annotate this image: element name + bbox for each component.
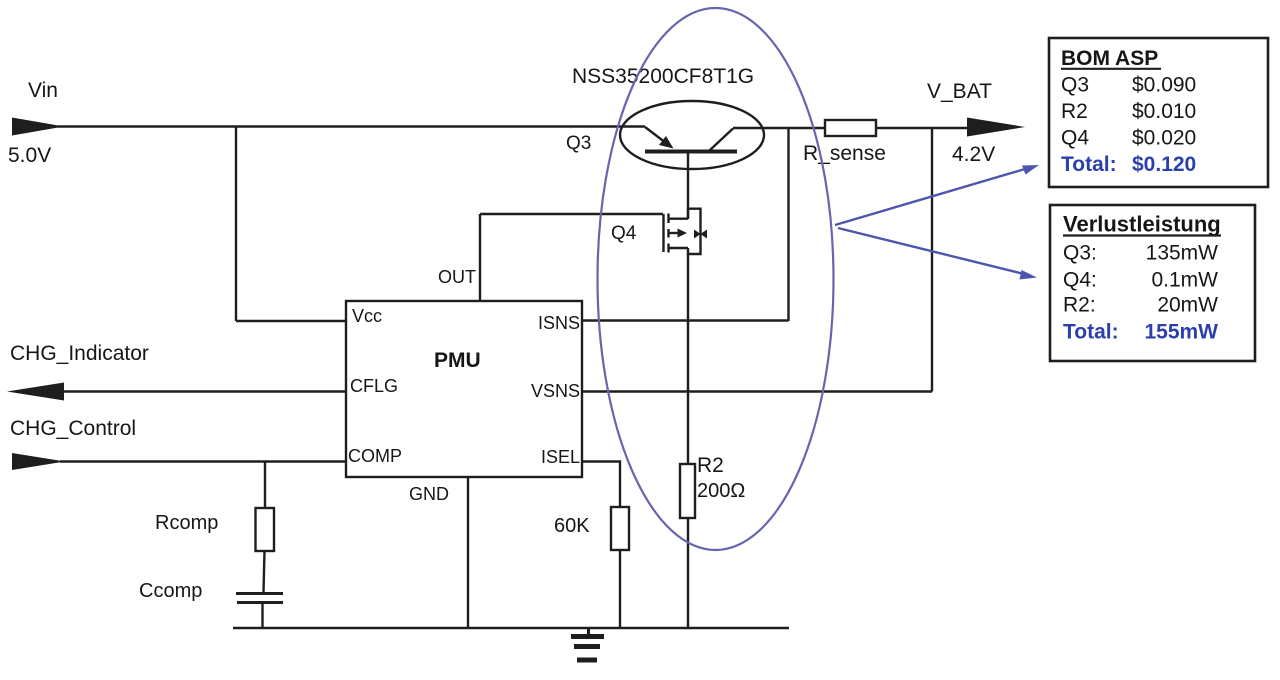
resistor Rcomp <box>256 508 275 551</box>
svg-text:ISEL: ISEL <box>541 447 580 467</box>
resistor R_sense <box>825 120 876 136</box>
svg-text:4.2V: 4.2V <box>952 143 995 166</box>
wire Rcomp branch <box>264 462 266 509</box>
svg-text:Verlustleistung: Verlustleistung <box>1063 212 1221 237</box>
svg-text:5.0V: 5.0V <box>8 144 51 167</box>
svg-text:200Ω: 200Ω <box>697 480 745 502</box>
callout arrow to BOM ASP box <box>835 165 1039 225</box>
svg-text:BOM ASP: BOM ASP <box>1061 47 1158 70</box>
svg-text:OUT: OUT <box>438 267 476 287</box>
wire ground rail <box>233 627 789 629</box>
svg-text:Vin: Vin <box>28 79 58 102</box>
wire COMP <box>60 460 346 462</box>
resistor R2 <box>680 464 695 518</box>
wire 60K to rail <box>619 550 621 628</box>
output arrow CHG_Indicator <box>7 383 64 401</box>
svg-text:Q3: Q3 <box>566 133 591 154</box>
ground symbol <box>571 628 604 660</box>
svg-text:V_BAT: V_BAT <box>927 80 992 103</box>
callout arrow to Verlustleistung box <box>838 228 1037 280</box>
svg-text:Rcomp: Rcomp <box>155 512 218 534</box>
svg-text:CHG_Control: CHG_Control <box>10 417 136 440</box>
svg-text:$0.010: $0.010 <box>1132 100 1196 123</box>
wire ISNS <box>582 319 789 321</box>
svg-text:60K: 60K <box>554 515 590 537</box>
wire Q3 collector to R_sense <box>733 127 825 129</box>
svg-text:CHG_Indicator: CHG_Indicator <box>10 342 149 365</box>
svg-text:Q4:: Q4: <box>1063 269 1097 292</box>
svg-text:$0.090: $0.090 <box>1132 74 1196 97</box>
input arrow Vin <box>12 118 64 136</box>
svg-text:Q3: Q3 <box>1061 74 1089 97</box>
annotation box BOM ASP <box>1049 38 1268 187</box>
wire VSNS <box>582 390 932 392</box>
wire Ccomp to rail <box>261 604 263 628</box>
IC U1 PMU body <box>346 301 582 477</box>
svg-text:135mW: 135mW <box>1146 242 1219 265</box>
svg-text:R_sense: R_sense <box>803 142 886 165</box>
wire ISEL to 60K <box>582 462 620 508</box>
svg-text:R2: R2 <box>1061 100 1088 123</box>
svg-text:Q4: Q4 <box>1061 127 1089 150</box>
wire R_sense to V_BAT <box>876 127 967 129</box>
wire collector drop to ISNS <box>787 128 789 321</box>
svg-text:Vcc: Vcc <box>352 306 382 326</box>
svg-text:Total:: Total: <box>1063 321 1119 344</box>
wire Vin rail <box>58 125 645 127</box>
svg-text:Q4: Q4 <box>611 223 637 244</box>
highlight ellipse around Q3 Q4 R2 <box>598 8 834 550</box>
svg-text:VSNS: VSNS <box>531 381 580 401</box>
transistor Q4 <box>664 209 708 254</box>
input arrow CHG_Control <box>12 453 65 470</box>
svg-text:155mW: 155mW <box>1144 321 1218 344</box>
wire R2 to rail <box>687 518 689 628</box>
wire Q3 base to Q4 drain <box>687 152 689 219</box>
transistor Q3 <box>620 101 764 169</box>
svg-text:COMP: COMP <box>348 446 402 466</box>
svg-text:NSS35200CF8T1G: NSS35200CF8T1G <box>572 65 754 88</box>
svg-text:CFLG: CFLG <box>350 376 398 396</box>
wire OUT to Q4 gate <box>480 213 663 215</box>
svg-text:Q3:: Q3: <box>1063 242 1097 265</box>
wire CFLG <box>60 390 346 392</box>
svg-text:20mW: 20mW <box>1157 294 1218 317</box>
svg-text:R2: R2 <box>697 454 724 477</box>
wire VSNS drop <box>931 128 933 392</box>
wire Q4 source to R2 <box>687 254 689 464</box>
capacitor Ccomp <box>236 594 283 603</box>
svg-text:$0.020: $0.020 <box>1132 127 1196 150</box>
wire Rcomp to Ccomp <box>264 551 265 592</box>
svg-text:Total:: Total: <box>1061 153 1117 176</box>
output arrow V_BAT <box>967 118 1025 137</box>
svg-text:R2:: R2: <box>1063 294 1096 317</box>
svg-text:PMU: PMU <box>434 349 481 372</box>
svg-text:GND: GND <box>409 484 449 504</box>
wire junction Vcc drop <box>235 127 237 322</box>
svg-text:$0.120: $0.120 <box>1132 153 1196 176</box>
svg-text:0.1mW: 0.1mW <box>1151 269 1218 292</box>
wire GND pin <box>467 477 469 628</box>
wire OUT vertical <box>479 214 481 301</box>
wire Vcc <box>236 320 346 322</box>
svg-text:ISNS: ISNS <box>538 313 580 333</box>
svg-text:Ccomp: Ccomp <box>139 580 202 602</box>
resistor 60K <box>611 507 629 550</box>
annotation box Verlustleistung <box>1050 205 1255 361</box>
